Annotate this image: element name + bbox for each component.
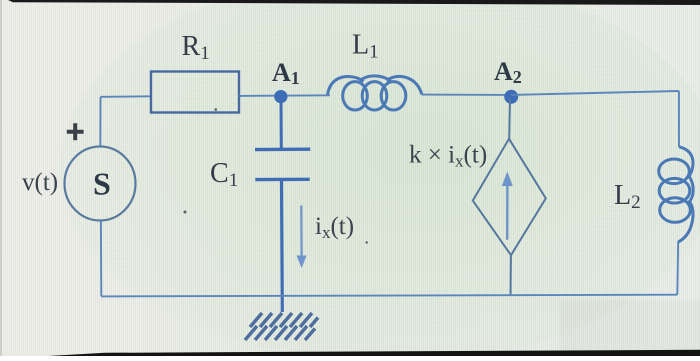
wire: C1 bottom plate down through bottom rail to ground <box>280 181 284 312</box>
voltage source S circle <box>65 147 136 221</box>
subtle corner vignette <box>560 300 700 350</box>
node A2 <box>504 90 518 104</box>
node A1 <box>274 90 287 103</box>
wire: L2 coil bottom to bottom right corner <box>676 241 679 295</box>
dependent current source diamond <box>473 139 546 255</box>
wire: from source bottom down to bottom rail <box>100 221 102 297</box>
capacitor C1 bottom plate <box>255 178 309 182</box>
dependent source stem from diamond bottom to bottom rail <box>510 255 512 295</box>
dependent source stem from A2 down to diamond top <box>508 98 511 139</box>
speck inside resistor <box>214 108 217 111</box>
svg-text:k × ix(t): k × ix(t) <box>409 142 487 171</box>
speck left of capacitor <box>184 211 187 214</box>
arrow inside diamond pointing up <box>506 185 509 240</box>
bottom rail wire <box>101 295 677 297</box>
svg-text:S: S <box>93 166 111 202</box>
wire: L1 right to node A2 <box>422 94 512 96</box>
wire: left vertical from top wire down to source circle top <box>99 97 101 147</box>
current arrow ix(t) <box>300 206 303 257</box>
capacitor C1 top plate <box>255 147 310 151</box>
inductor L1 coil <box>328 76 422 110</box>
svg-text:v(t): v(t) <box>22 169 58 196</box>
resistor R1 <box>151 72 239 113</box>
ground hatching <box>245 313 318 340</box>
plus sign polarity mark <box>67 123 84 140</box>
black border wedge top <box>8 0 700 5</box>
svg-text:ix(t): ix(t) <box>315 213 354 242</box>
wire: A2 to top right corner <box>511 91 679 95</box>
speck near ix label <box>366 241 368 243</box>
inductor L2 on right branch: wire from top corner down to coil <box>678 91 680 147</box>
capacitor C1 branch: wire from A1 down to top plate <box>280 97 283 149</box>
wire: top left segment from source top to R1 <box>101 95 151 98</box>
black border wedge bottom <box>48 350 700 356</box>
inductor L2 coil <box>659 147 694 242</box>
wire: R1 right to node A1 <box>239 94 330 97</box>
